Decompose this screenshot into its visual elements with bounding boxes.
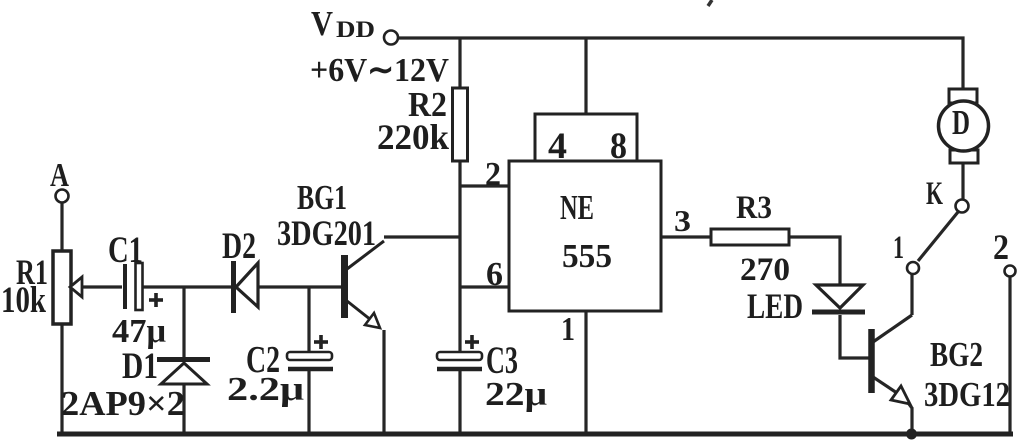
svg-text:BG1: BG1 bbox=[297, 178, 347, 217]
svg-text:D2: D2 bbox=[222, 226, 256, 267]
svg-text:47μ: 47μ bbox=[112, 313, 166, 350]
svg-text:6: 6 bbox=[486, 256, 503, 293]
svg-text:C1: C1 bbox=[108, 230, 143, 271]
svg-text:2AP9×2: 2AP9×2 bbox=[61, 384, 185, 423]
svg-text:DD: DD bbox=[336, 17, 375, 42]
svg-text:4: 4 bbox=[548, 126, 567, 167]
svg-text:+6V∼12V: +6V∼12V bbox=[310, 52, 449, 89]
svg-text:3DG201: 3DG201 bbox=[277, 213, 376, 253]
svg-text:555: 555 bbox=[562, 238, 612, 275]
svg-text:220k: 220k bbox=[377, 117, 449, 157]
svg-text:D: D bbox=[952, 103, 970, 142]
svg-text:2: 2 bbox=[485, 156, 501, 193]
svg-text:LED: LED bbox=[747, 286, 803, 326]
svg-text:D1: D1 bbox=[122, 346, 158, 387]
svg-text:R3: R3 bbox=[736, 190, 772, 226]
svg-text:V: V bbox=[311, 4, 333, 43]
svg-text:22μ: 22μ bbox=[485, 376, 547, 413]
svg-text:K: K bbox=[926, 176, 943, 212]
svg-text:270: 270 bbox=[740, 252, 790, 288]
svg-text:A: A bbox=[50, 157, 69, 194]
svg-text:2: 2 bbox=[993, 227, 1009, 267]
svg-text:2.2μ: 2.2μ bbox=[227, 371, 304, 408]
svg-text:BG2: BG2 bbox=[930, 335, 983, 374]
svg-text:3: 3 bbox=[674, 203, 691, 238]
svg-text:3DG12: 3DG12 bbox=[924, 375, 1010, 414]
svg-text:1: 1 bbox=[893, 230, 904, 266]
svg-text:8: 8 bbox=[610, 126, 627, 167]
svg-text:10k: 10k bbox=[1, 280, 46, 321]
svg-text:NE: NE bbox=[560, 188, 594, 227]
svg-text:1: 1 bbox=[561, 311, 575, 348]
